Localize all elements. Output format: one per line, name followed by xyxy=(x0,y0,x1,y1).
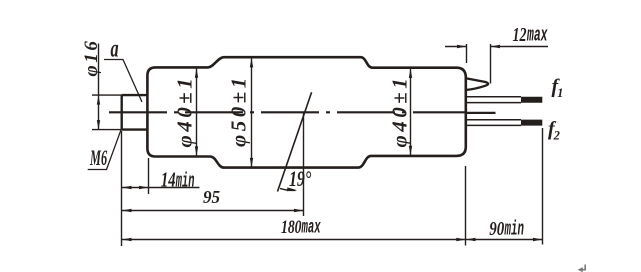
svg-text:M6: M6 xyxy=(89,145,107,170)
svg-text:min: min xyxy=(175,170,194,193)
svg-text:19°: 19° xyxy=(289,168,311,192)
svg-text:14: 14 xyxy=(161,168,176,191)
svg-text:90: 90 xyxy=(489,217,504,240)
svg-text:φ16: φ16 xyxy=(81,39,102,77)
svg-text:180: 180 xyxy=(281,216,302,238)
svg-text:min: min xyxy=(504,218,524,240)
svg-text:f2: f2 xyxy=(548,118,560,143)
svg-text:f1: f1 xyxy=(552,76,564,101)
svg-text:a: a xyxy=(111,34,119,62)
svg-text:φ40±1: φ40±1 xyxy=(388,75,412,148)
svg-text:max: max xyxy=(301,217,321,239)
svg-text:φ40±1: φ40±1 xyxy=(173,75,197,148)
svg-text:max: max xyxy=(526,23,548,46)
svg-text:95: 95 xyxy=(203,187,220,208)
svg-text:φ50±1: φ50±1 xyxy=(227,74,251,147)
svg-text:12: 12 xyxy=(513,24,527,46)
